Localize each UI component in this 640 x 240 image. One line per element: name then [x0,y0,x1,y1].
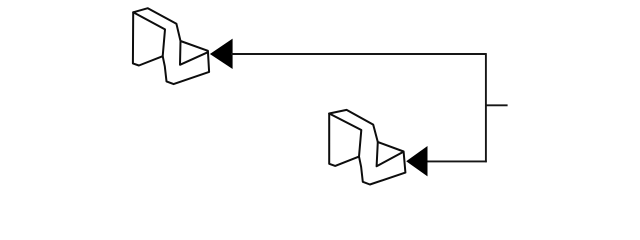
leader arrowhead 1 (points to part 1) [210,39,233,69]
leader line: vertical trunk [485,53,487,162]
part 2: lower retainer block (isometric) [329,110,405,185]
part 2 top-face inner edge [329,114,361,157]
part 1: upper retainer block (isometric) [133,8,209,84]
part 2 outer outline [329,110,405,185]
part 2 shelf wedge edges [377,142,404,166]
leader line 2: horizontal from arrow 2 to trunk [427,160,487,162]
part 1 shelf wedge edges [180,41,208,65]
leader arrowhead 2 (points to part 2) [406,146,427,176]
leader line 1: horizontal from arrow 1 to elbow [231,53,486,55]
tick mark on trunk [486,104,508,106]
part 1 top-face inner edge [133,12,165,56]
part 1 outer outline [133,8,209,84]
